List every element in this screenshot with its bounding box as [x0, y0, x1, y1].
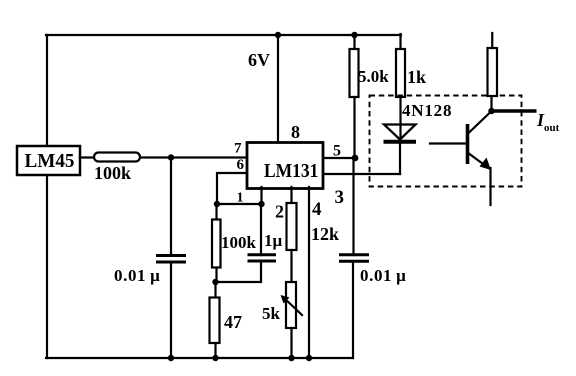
- wire: 6V rail corner down into 1k: [399, 34, 401, 49]
- junction: 5.0k resistor wire to 6V rail: [351, 32, 357, 38]
- capacitor C1 0.01u (left): [156, 256, 186, 263]
- wire: top 6V supply rail: [46, 34, 401, 36]
- capacitor C3 0.01u (right): [339, 255, 369, 261]
- svg-text:6V: 6V: [248, 50, 270, 70]
- IC U2 LM45 temperature sensor box: [17, 146, 80, 175]
- wire: bottom ground rail: [46, 357, 353, 359]
- wire: 1u cap bottom down and left to lower node: [216, 261, 262, 282]
- junction: 47 resistor at ground rail: [212, 355, 218, 361]
- svg-text:LM131: LM131: [264, 160, 319, 182]
- svg-text:47: 47: [224, 312, 242, 332]
- wire: pin 2 down into 12k: [290, 187, 292, 203]
- IC U1 LM131 voltage-to-frequency converter box: [247, 143, 323, 189]
- svg-text:0.01 μ: 0.01 μ: [360, 266, 406, 285]
- junction: pin-8 wire to 6V rail: [275, 32, 281, 38]
- wire: 6V rail down into 5.0k: [353, 35, 355, 49]
- wire: lower node into 47 ohm resistor: [214, 282, 216, 298]
- wire: pin 8 up to 6V rail: [277, 35, 279, 142]
- wire: 1k down to LED anode: [399, 97, 401, 143]
- phototransistor Q1 base lead: [430, 142, 466, 144]
- resistor R1 100k (horizontal): [94, 153, 140, 162]
- svg-text:8: 8: [291, 122, 300, 142]
- wire: node down to left 0.01u cap: [170, 158, 172, 256]
- wire: pin 1 down to node: [260, 187, 262, 204]
- wire: 100k bottom to lower node: [215, 268, 217, 283]
- junction: lower node (100k / 1u / 47): [212, 279, 218, 285]
- wire: collector node up to pull-up resistor: [490, 96, 492, 111]
- junction: collector output node: [488, 108, 494, 114]
- phototransistor Q1 collector lead: [468, 112, 492, 135]
- wire: pin 5 right to timing node: [323, 157, 355, 159]
- wire: LED cathode down to pin 3 line: [399, 143, 401, 174]
- wire: pin 4 down to ground rail: [308, 187, 310, 358]
- wire: pull-up resistor top lead: [491, 33, 493, 48]
- junction: pot at ground rail: [288, 355, 294, 361]
- wire: 100k to LM131 pin 7: [140, 156, 247, 158]
- resistor R6 5.0k: [350, 49, 359, 97]
- svg-text:6: 6: [237, 157, 245, 173]
- potentiometer R5 5k body: [286, 282, 296, 328]
- svg-text:0.01 μ: 0.01 μ: [114, 266, 160, 285]
- wire: output line to Iout: [492, 109, 537, 112]
- wire: emitter tail through dashed box: [489, 168, 491, 205]
- svg-text:100k: 100k: [94, 163, 131, 183]
- wire: left rail upper segment (6V rail down to LM45 top): [46, 35, 48, 146]
- svg-text:100k: 100k: [221, 233, 257, 252]
- junction: pin 5 timing node: [352, 155, 359, 162]
- wire: pin 5 node down to right 0.01u cap: [352, 158, 354, 255]
- wire: 47 resistor to ground rail: [214, 343, 216, 358]
- resistor R8 (collector pull-up): [488, 48, 498, 96]
- svg-text:LM45: LM45: [25, 150, 75, 172]
- resistor R4 12k: [287, 203, 297, 250]
- svg-text:4N128: 4N128: [402, 101, 452, 120]
- LED D1 of optocoupler (triangle): [384, 125, 416, 140]
- wire: LM45 output to 100k resistor: [80, 156, 94, 158]
- junction: pin 4 at ground rail: [306, 355, 312, 361]
- potentiometer R5 wiper arrow: [283, 297, 302, 315]
- junction: cap C1 at ground rail: [168, 355, 174, 361]
- svg-text:1k: 1k: [407, 67, 426, 87]
- wire: pin 3 right to LED cathode: [323, 173, 400, 175]
- wire: node joining pin 6 and pin 1: [217, 203, 262, 205]
- junction: node at 100k / 0.01u cap: [168, 154, 174, 160]
- svg-text:5k: 5k: [262, 304, 281, 323]
- wire: pin 6 left and down to node: [217, 173, 247, 204]
- resistor R2 100k (vertical): [212, 220, 221, 268]
- optocoupler U3 4N128 dashed outline: [370, 96, 522, 187]
- wire: node down into 100k load resistor: [215, 204, 217, 220]
- svg-text:1μ: 1μ: [264, 231, 283, 250]
- svg-text:7: 7: [234, 141, 242, 157]
- svg-text:4: 4: [312, 199, 322, 220]
- resistor R7 1k: [396, 49, 405, 97]
- junction: pin 6 node: [214, 201, 220, 207]
- phototransistor Q1 base bar: [466, 124, 470, 164]
- svg-text:out: out: [544, 122, 560, 134]
- wire: LM45 bottom to ground rail: [46, 175, 48, 358]
- capacitor C2 1u: [248, 255, 277, 261]
- phototransistor Q1 emitter lead: [468, 153, 489, 169]
- svg-text:12k: 12k: [311, 224, 339, 244]
- wire: right 0.01u cap to ground rail: [352, 261, 354, 358]
- resistor R3 47: [210, 298, 220, 344]
- wire: 5k pot to ground rail: [290, 328, 292, 358]
- wire: left 0.01u cap to ground rail: [170, 262, 172, 358]
- phototransistor Q1 emitter arrowhead: [480, 158, 492, 171]
- wire: 12k to 5k potentiometer: [290, 250, 292, 282]
- svg-text:2: 2: [275, 202, 284, 222]
- wire: pin1 node down to 1u cap: [260, 204, 262, 255]
- LED D1 cathode bar: [384, 140, 417, 144]
- junction: pin 1 node: [258, 201, 264, 207]
- wire: 5.0k down to pin 5 node: [353, 97, 355, 158]
- svg-text:3: 3: [335, 187, 345, 208]
- svg-text:5.0k: 5.0k: [358, 67, 389, 86]
